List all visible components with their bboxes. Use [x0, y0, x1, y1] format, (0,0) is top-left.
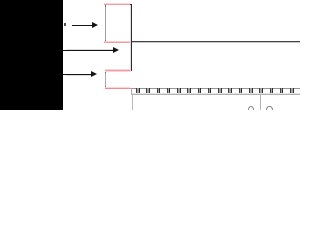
box B1 bottom edge (red) — [104, 42, 129, 43]
halo above step S red bottom line — [105, 86, 130, 89]
key pair 16 — [290, 88, 294, 94]
box B1 top edge (red) — [104, 4, 129, 5]
key pair 5 — [177, 88, 181, 94]
halo below long rule — [132, 41, 300, 44]
key pair 11 — [239, 88, 243, 94]
arrow A2 shaft — [63, 50, 113, 51]
key pair 3 — [157, 88, 161, 94]
step S red top line — [105, 70, 131, 71]
axis digit 0 (right) — [266, 106, 272, 114]
step S left grey edge — [105, 71, 106, 88]
arrow A3 shaft — [63, 74, 91, 75]
key pair 12 — [249, 88, 253, 94]
arrow A1 head — [92, 22, 98, 28]
key pair 2 — [146, 88, 150, 94]
keyboard band bottom border — [131, 94, 300, 95]
key pair 14 — [270, 88, 274, 94]
halo below step S red top line — [105, 70, 131, 73]
dropline D1 — [132, 95, 133, 110]
arrow A3 head — [91, 71, 97, 77]
key pair 6 — [187, 88, 191, 94]
black panel (left image region) — [0, 0, 63, 110]
axis digit 0 (left) — [248, 106, 254, 114]
arrow A2 head — [113, 47, 119, 53]
halo above box B1 bottom edge — [104, 40, 129, 43]
halo left of box B1 right edge — [129, 5, 132, 72]
step S red bottom line — [105, 88, 131, 89]
box B1 bottom-left corner mark — [105, 40, 106, 42]
halo above box B1 top edge — [104, 2, 129, 5]
halo above band bottom border — [132, 92, 300, 95]
arrow A1 shaft — [72, 25, 93, 26]
dropline D2 — [260, 95, 261, 110]
step S bottom-left corner mark — [105, 86, 106, 88]
box B1 left edge (grey) — [105, 5, 106, 42]
box B1 right edge vertical rule (dark) — [130, 4, 132, 72]
keyboard band left edge — [131, 88, 132, 95]
halo above arrow A2 shaft — [66, 48, 113, 51]
key pair 7 — [198, 88, 202, 94]
key pair 4 — [167, 88, 171, 94]
keyboard band top border — [131, 88, 300, 89]
key pair 9 — [218, 88, 222, 94]
key pair 10 — [228, 88, 232, 94]
key pair 15 — [280, 88, 284, 94]
step S top-left corner mark — [105, 71, 106, 73]
key pair 1 — [136, 88, 140, 94]
key pair 13 — [259, 88, 263, 94]
halo above step S red top line — [105, 68, 131, 71]
key pair 8 — [208, 88, 212, 94]
tiny cut-off label glyph — [63, 23, 66, 25]
box B1 top-left corner mark — [105, 5, 106, 7]
halo below arrow A3 shaft — [66, 74, 91, 77]
long horizontal rule — [132, 41, 300, 42]
